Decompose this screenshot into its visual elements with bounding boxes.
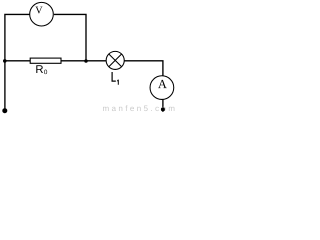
label subscript 0 [44, 70, 47, 75]
node B (junction dot, voltmeter tap right of resistor) [84, 59, 88, 63]
label L [112, 72, 116, 82]
wire: left vertical from bottom terminal up to voltmeter row, with corner [5, 14, 30, 110]
ammeter A (circle) [150, 76, 174, 100]
wire: node A to resistor R0 [5, 60, 30, 62]
wire: resistor R0 to node B [61, 60, 86, 62]
terminal dot (right, below ammeter) [161, 107, 165, 111]
wire: ammeter bottom to right terminal [162, 100, 164, 109]
voltmeter letter V [35, 7, 42, 14]
voltmeter V (circle) [30, 2, 54, 26]
label subscript 1 [117, 80, 119, 85]
terminal dot (left, bottom of left wire) [2, 108, 7, 113]
watermark manfen5.com [103, 105, 174, 111]
ammeter letter A [158, 80, 167, 88]
wire: voltmeter right lead to corner and down to node B [54, 14, 86, 61]
node A (junction dot, left end of resistor row) [3, 59, 7, 63]
wire: lamp L1 to corner and down to ammeter [124, 61, 163, 76]
resistor R0 (box) [30, 58, 61, 63]
wire: node B to lamp L1 [86, 60, 106, 62]
lamp L1 (circle with cross) [106, 51, 124, 69]
label R [36, 65, 43, 73]
